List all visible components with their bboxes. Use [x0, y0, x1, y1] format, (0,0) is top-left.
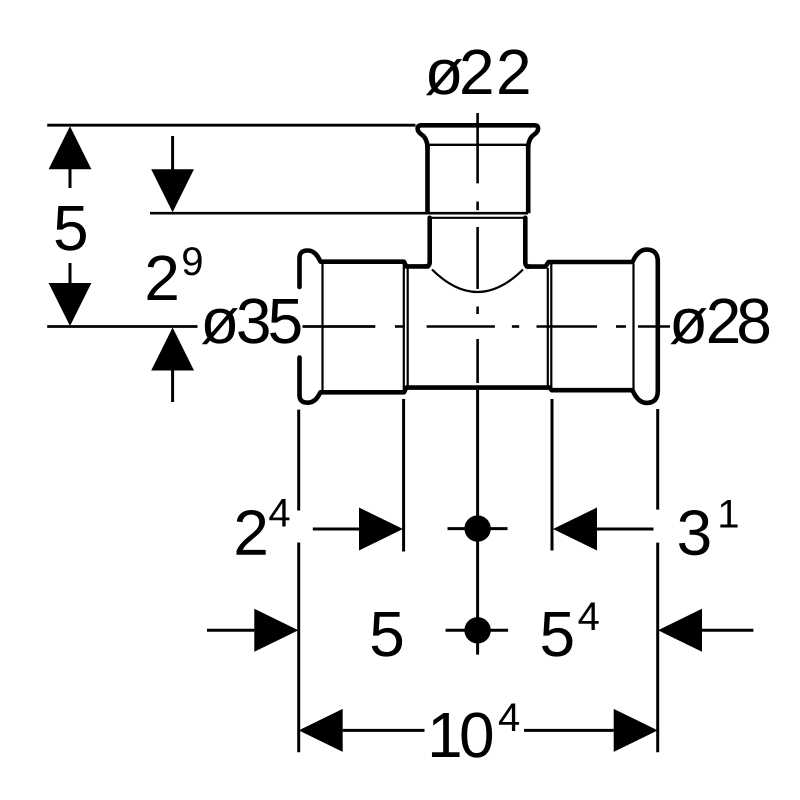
label 2 of 2^9	[148, 255, 177, 300]
dim 10_4 left arrow	[299, 709, 343, 752]
body outline top-right with right bead	[527, 250, 658, 403]
centerline dot row1	[464, 515, 490, 541]
label ø22	[426, 59, 462, 95]
label 4 superscript of 10^4	[499, 703, 519, 731]
vertical centerline dash above bead	[476, 113, 479, 183]
extension line left end (x=298.7) upper part	[297, 410, 300, 511]
left press indent line 1	[403, 263, 405, 391]
vertical centerline short dash	[476, 307, 479, 315]
dimension line top (level of bead top)	[47, 124, 415, 127]
horizontal centerline solid after ø35	[303, 325, 376, 328]
dim 2_9 down arrow	[151, 169, 194, 212]
horizontal centerline short dash	[512, 325, 519, 328]
extension line right end upper part	[656, 409, 659, 510]
extension line right indent	[551, 399, 554, 551]
dim 2_9 lower stem	[171, 371, 174, 403]
dim 5 upper stem	[69, 169, 72, 188]
vertical centerline short dash	[476, 202, 479, 211]
dim 5_4 left arrow	[658, 609, 702, 652]
extension line right end lower part	[656, 543, 659, 753]
label 2 of 2^4	[237, 510, 266, 555]
dim 3_1 left arrow	[553, 508, 597, 551]
dim 10_4 line right	[524, 729, 614, 732]
horizontal centerline dash	[427, 325, 495, 328]
label 9 superscript	[183, 247, 201, 275]
right press indent line 2	[550, 264, 552, 390]
extension line left end lower part	[297, 543, 300, 753]
dim 10_4 line left	[343, 729, 425, 732]
vertical centerline dash	[476, 227, 479, 289]
branch upper wall left	[425, 146, 430, 213]
label 5 (top left)	[56, 206, 86, 251]
body outline bottom-left with left bead bottom hook	[300, 358, 407, 403]
dim 5 down arrow	[49, 283, 92, 326]
left socket end-face line	[321, 264, 323, 391]
dim 5 up arrow	[49, 126, 92, 169]
label 10 of 10^4	[432, 713, 460, 757]
branch lower wall left with foot	[425, 218, 430, 267]
dim 5 row2 tail	[207, 629, 254, 632]
branch upper wall right	[526, 146, 531, 213]
dim 2_9 upper stem	[171, 136, 174, 170]
label ø35	[202, 308, 238, 344]
horizontal centerline short dash	[616, 325, 626, 328]
dimension line 2 (level of branch step)	[150, 212, 528, 215]
horizontal centerline short dash	[395, 325, 405, 328]
dot row2 tick	[446, 629, 509, 632]
dim 5 row2 right arrow	[254, 609, 298, 652]
horizontal centerline dash	[537, 325, 598, 328]
vertical centerline solid below body	[476, 390, 479, 655]
body outline top-left with left bead top hook	[300, 251, 429, 288]
branch step line lower	[430, 217, 526, 219]
left press indent line 2	[407, 268, 409, 388]
label 4 superscript of 5^4	[579, 602, 599, 630]
fillet arc below branch	[432, 270, 523, 293]
vertical centerline dash	[476, 339, 479, 383]
branch lower wall right with foot	[525, 218, 530, 267]
label 5 (row2)	[372, 612, 402, 657]
dim 2_9 up arrow	[151, 328, 194, 371]
horizontal centerline dash through right bead	[638, 325, 670, 328]
branch bead (top collar of vertical socket)	[418, 125, 538, 148]
dim 3_1 tail	[597, 528, 654, 531]
right press indent line 1	[547, 268, 549, 387]
label 4 superscript of 2^4	[269, 499, 289, 527]
centerline dot row2	[464, 617, 490, 643]
label ø28	[670, 308, 706, 344]
branch bead lower edge line	[425, 144, 530, 146]
label 3 of 3^1	[679, 510, 709, 555]
horizontal centerline solid left (dim line of ø35)	[47, 325, 197, 328]
dim 5 lower stem	[69, 263, 72, 283]
dot row1 tick	[448, 527, 508, 530]
dim 2_4 right arrow	[359, 508, 403, 551]
dim 2_4 tail	[313, 528, 359, 531]
dim 5_4 tail	[702, 629, 753, 632]
label 5 of 5^4	[542, 612, 572, 657]
dim 10_4 right arrow	[614, 709, 658, 752]
label 1 superscript of 3^1	[720, 500, 737, 528]
extension line left indent	[402, 399, 405, 552]
body bottom edge middle	[406, 385, 550, 390]
right socket end-face line	[632, 264, 634, 390]
